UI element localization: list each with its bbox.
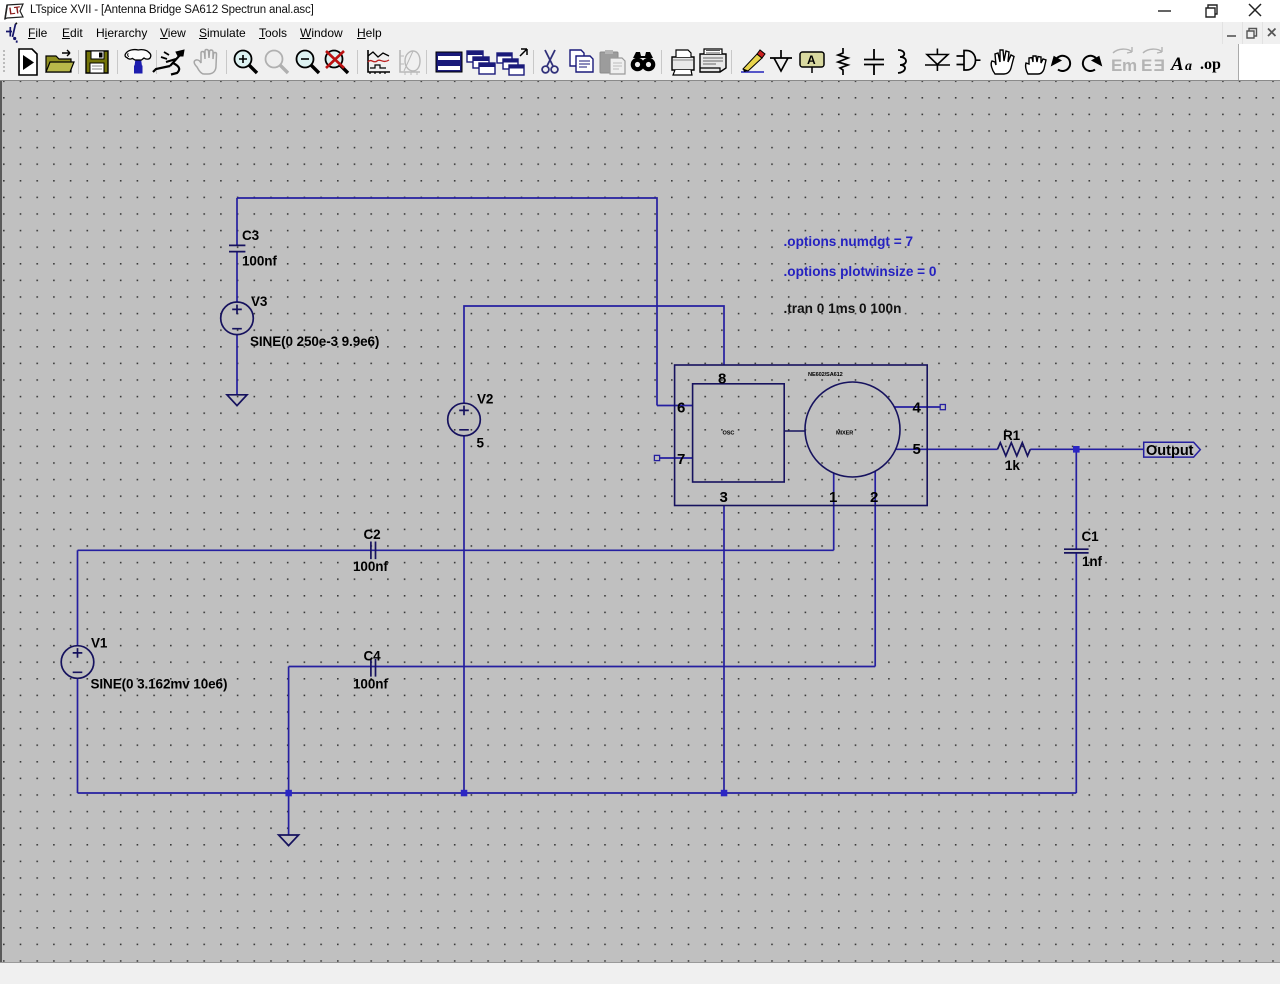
wire: ground rail bbox=[78, 792, 1077, 794]
svg-text:8: 8 bbox=[718, 371, 726, 388]
wire: pin3 vertical bbox=[723, 506, 725, 794]
waveform icon bbox=[368, 50, 390, 74]
svg-text:a: a bbox=[1185, 59, 1192, 74]
svg-text:MIXER: MIXER bbox=[836, 431, 853, 437]
capacitor C3 bbox=[229, 245, 245, 251]
restore bbox=[1206, 5, 1217, 17]
svg-text:3: 3 bbox=[720, 489, 728, 506]
wire pencil bbox=[741, 50, 765, 72]
zoom out bbox=[297, 51, 320, 74]
svg-text:5: 5 bbox=[913, 441, 921, 458]
wire: pin4 bbox=[894, 406, 940, 408]
voltage source V3 bbox=[221, 302, 254, 335]
title bar bbox=[0, 0, 1280, 22]
open terminal pin4 bbox=[940, 405, 945, 410]
wire: R1 to Output bbox=[1030, 448, 1143, 450]
wire: pin6 into OSC bbox=[657, 405, 693, 407]
toolbar bbox=[0, 44, 1280, 81]
svg-text:m: m bbox=[1122, 56, 1137, 75]
svg-text:LT: LT bbox=[8, 5, 21, 17]
svg-text:OSC: OSC bbox=[723, 431, 735, 437]
zoom in bbox=[235, 51, 258, 74]
svg-text:C1: C1 bbox=[1082, 529, 1100, 544]
wire: C4 net vertical bbox=[288, 667, 290, 794]
svg-text:E: E bbox=[1141, 56, 1152, 75]
svg-text:5: 5 bbox=[477, 436, 485, 451]
svg-text:A: A bbox=[807, 53, 816, 67]
label A icon bbox=[800, 52, 824, 73]
mirror Em (gray) bbox=[1111, 47, 1137, 75]
ground bbox=[227, 395, 247, 406]
ground bbox=[279, 835, 299, 846]
print bbox=[672, 50, 694, 75]
wire: C4 net horizontal bbox=[289, 666, 876, 668]
svg-text:7: 7 bbox=[677, 451, 685, 468]
svg-text:100nf: 100nf bbox=[353, 559, 388, 574]
left window border bbox=[0, 81, 2, 963]
svg-text:100nf: 100nf bbox=[353, 677, 388, 692]
minimize bbox=[1158, 10, 1171, 12]
zoom back (gray) bbox=[266, 51, 289, 74]
capacitor C1 bbox=[1064, 549, 1089, 553]
svg-text:NE602/SA612: NE602/SA612 bbox=[808, 372, 843, 378]
svg-text:1k: 1k bbox=[1005, 458, 1020, 473]
wire: pin2 vertical bbox=[874, 472, 876, 667]
IC U1 NE602/SA612 bbox=[675, 365, 928, 506]
drag hand bbox=[1026, 56, 1046, 74]
run icon bbox=[19, 49, 37, 75]
svg-text:A: A bbox=[1170, 54, 1184, 75]
save floppy bbox=[86, 51, 108, 73]
svg-text:C3: C3 bbox=[242, 228, 260, 243]
voltage source V1 bbox=[61, 646, 94, 679]
open terminal pin7 bbox=[654, 455, 659, 460]
copy bbox=[570, 50, 593, 72]
wire: ground stub bottom bbox=[288, 793, 290, 835]
find binoculars bbox=[631, 52, 656, 71]
wire: V2 bottom to ground rail bbox=[463, 436, 465, 793]
resistor icon bbox=[838, 48, 848, 75]
wire: C3 top lead bbox=[236, 198, 238, 245]
hammer bbox=[125, 50, 151, 73]
svg-text:C2: C2 bbox=[364, 527, 381, 542]
wire: V1 top to C2 net bbox=[77, 550, 79, 646]
svg-text:SINE(0 250e-3 9.9e6): SINE(0 250e-3 9.9e6) bbox=[250, 334, 379, 349]
svg-text:E: E bbox=[1154, 56, 1165, 75]
cascade windows bbox=[467, 51, 495, 74]
capacitor C4 bbox=[371, 659, 376, 677]
diode icon bbox=[925, 49, 950, 72]
svg-text:.options plotwinsize = 0: .options plotwinsize = 0 bbox=[784, 264, 937, 279]
grayed plot icon bbox=[400, 50, 420, 75]
svg-text:100nf: 100nf bbox=[242, 254, 277, 269]
svg-text:E: E bbox=[1111, 56, 1122, 75]
zoom full extents (red X) bbox=[326, 51, 349, 74]
separator bbox=[78, 50, 80, 74]
wire: V3 to ground bbox=[236, 335, 238, 395]
inductor icon bbox=[898, 50, 906, 73]
status bar bbox=[0, 963, 1280, 984]
menu bar bbox=[0, 22, 1280, 44]
wire: C3 bottom to V3 bbox=[236, 252, 238, 302]
print preview bbox=[700, 49, 726, 72]
svg-text:Output: Output bbox=[1146, 443, 1194, 459]
svg-text:4: 4 bbox=[913, 399, 922, 416]
mixer circle bbox=[805, 382, 900, 477]
runner bbox=[153, 50, 184, 75]
scissors bbox=[542, 50, 558, 73]
wire: C2 net horizontal bbox=[78, 549, 834, 551]
LTspice app icon bbox=[5, 4, 23, 19]
osc-mixer link bbox=[784, 430, 805, 432]
drag handle bbox=[3, 50, 5, 74]
svg-text:.options numdgt = 7: .options numdgt = 7 bbox=[784, 234, 914, 249]
move hand bbox=[991, 50, 1014, 74]
open folder bbox=[46, 50, 74, 72]
svg-text:V1: V1 bbox=[91, 636, 108, 651]
wire: C1 to rail bbox=[1075, 553, 1077, 793]
redo bbox=[1083, 56, 1102, 71]
wire: pin1 vertical bbox=[833, 473, 835, 550]
svg-text:.op: .op bbox=[1200, 56, 1221, 73]
tile windows with arrow bbox=[497, 49, 527, 75]
wire: C1 top to R1 node bbox=[1075, 449, 1077, 549]
OSC box bbox=[693, 384, 785, 482]
svg-text:.tran 0 1ms 0 100n: .tran 0 1ms 0 100n bbox=[784, 301, 902, 316]
ground icon bbox=[770, 50, 792, 71]
svg-text:C4: C4 bbox=[364, 649, 382, 664]
rotate E3 (gray) bbox=[1141, 47, 1165, 75]
wire: pin5 to R1 bbox=[896, 448, 998, 450]
wire: V2 top to pin8 bbox=[464, 306, 724, 403]
svg-text:2: 2 bbox=[870, 489, 878, 506]
schematic text labels bbox=[91, 228, 1103, 692]
svg-text:V3: V3 bbox=[251, 294, 268, 309]
new schematic window bbox=[436, 52, 462, 72]
component gate icon bbox=[957, 51, 981, 71]
svg-text:SINE(0 3.162mv 10e6): SINE(0 3.162mv 10e6) bbox=[91, 677, 228, 692]
capacitor C2 bbox=[371, 542, 376, 560]
svg-text:1nf: 1nf bbox=[1082, 554, 1103, 569]
svg-text:1: 1 bbox=[829, 489, 837, 506]
resistor R1 bbox=[998, 443, 1031, 456]
svg-text:R1: R1 bbox=[1003, 428, 1021, 443]
capacitor icon bbox=[864, 49, 884, 75]
wire: pin7 bbox=[660, 457, 693, 459]
close bbox=[1249, 4, 1261, 16]
undo bbox=[1052, 56, 1071, 71]
paste (gray) bbox=[600, 50, 625, 74]
toolbar right edge bbox=[1238, 44, 1240, 80]
pale hand bbox=[194, 50, 216, 75]
svg-text:6: 6 bbox=[677, 399, 685, 416]
wire: top net C3 to pin6 bbox=[237, 198, 657, 406]
MDI child buttons bbox=[1210, 22, 1280, 44]
junction node bbox=[285, 446, 1079, 796]
IC outer box bbox=[675, 365, 928, 506]
wire: V1 bottom bbox=[77, 678, 79, 793]
Output flag bbox=[1144, 442, 1201, 459]
voltage source V2 bbox=[448, 403, 481, 436]
svg-text:V2: V2 bbox=[477, 392, 493, 407]
